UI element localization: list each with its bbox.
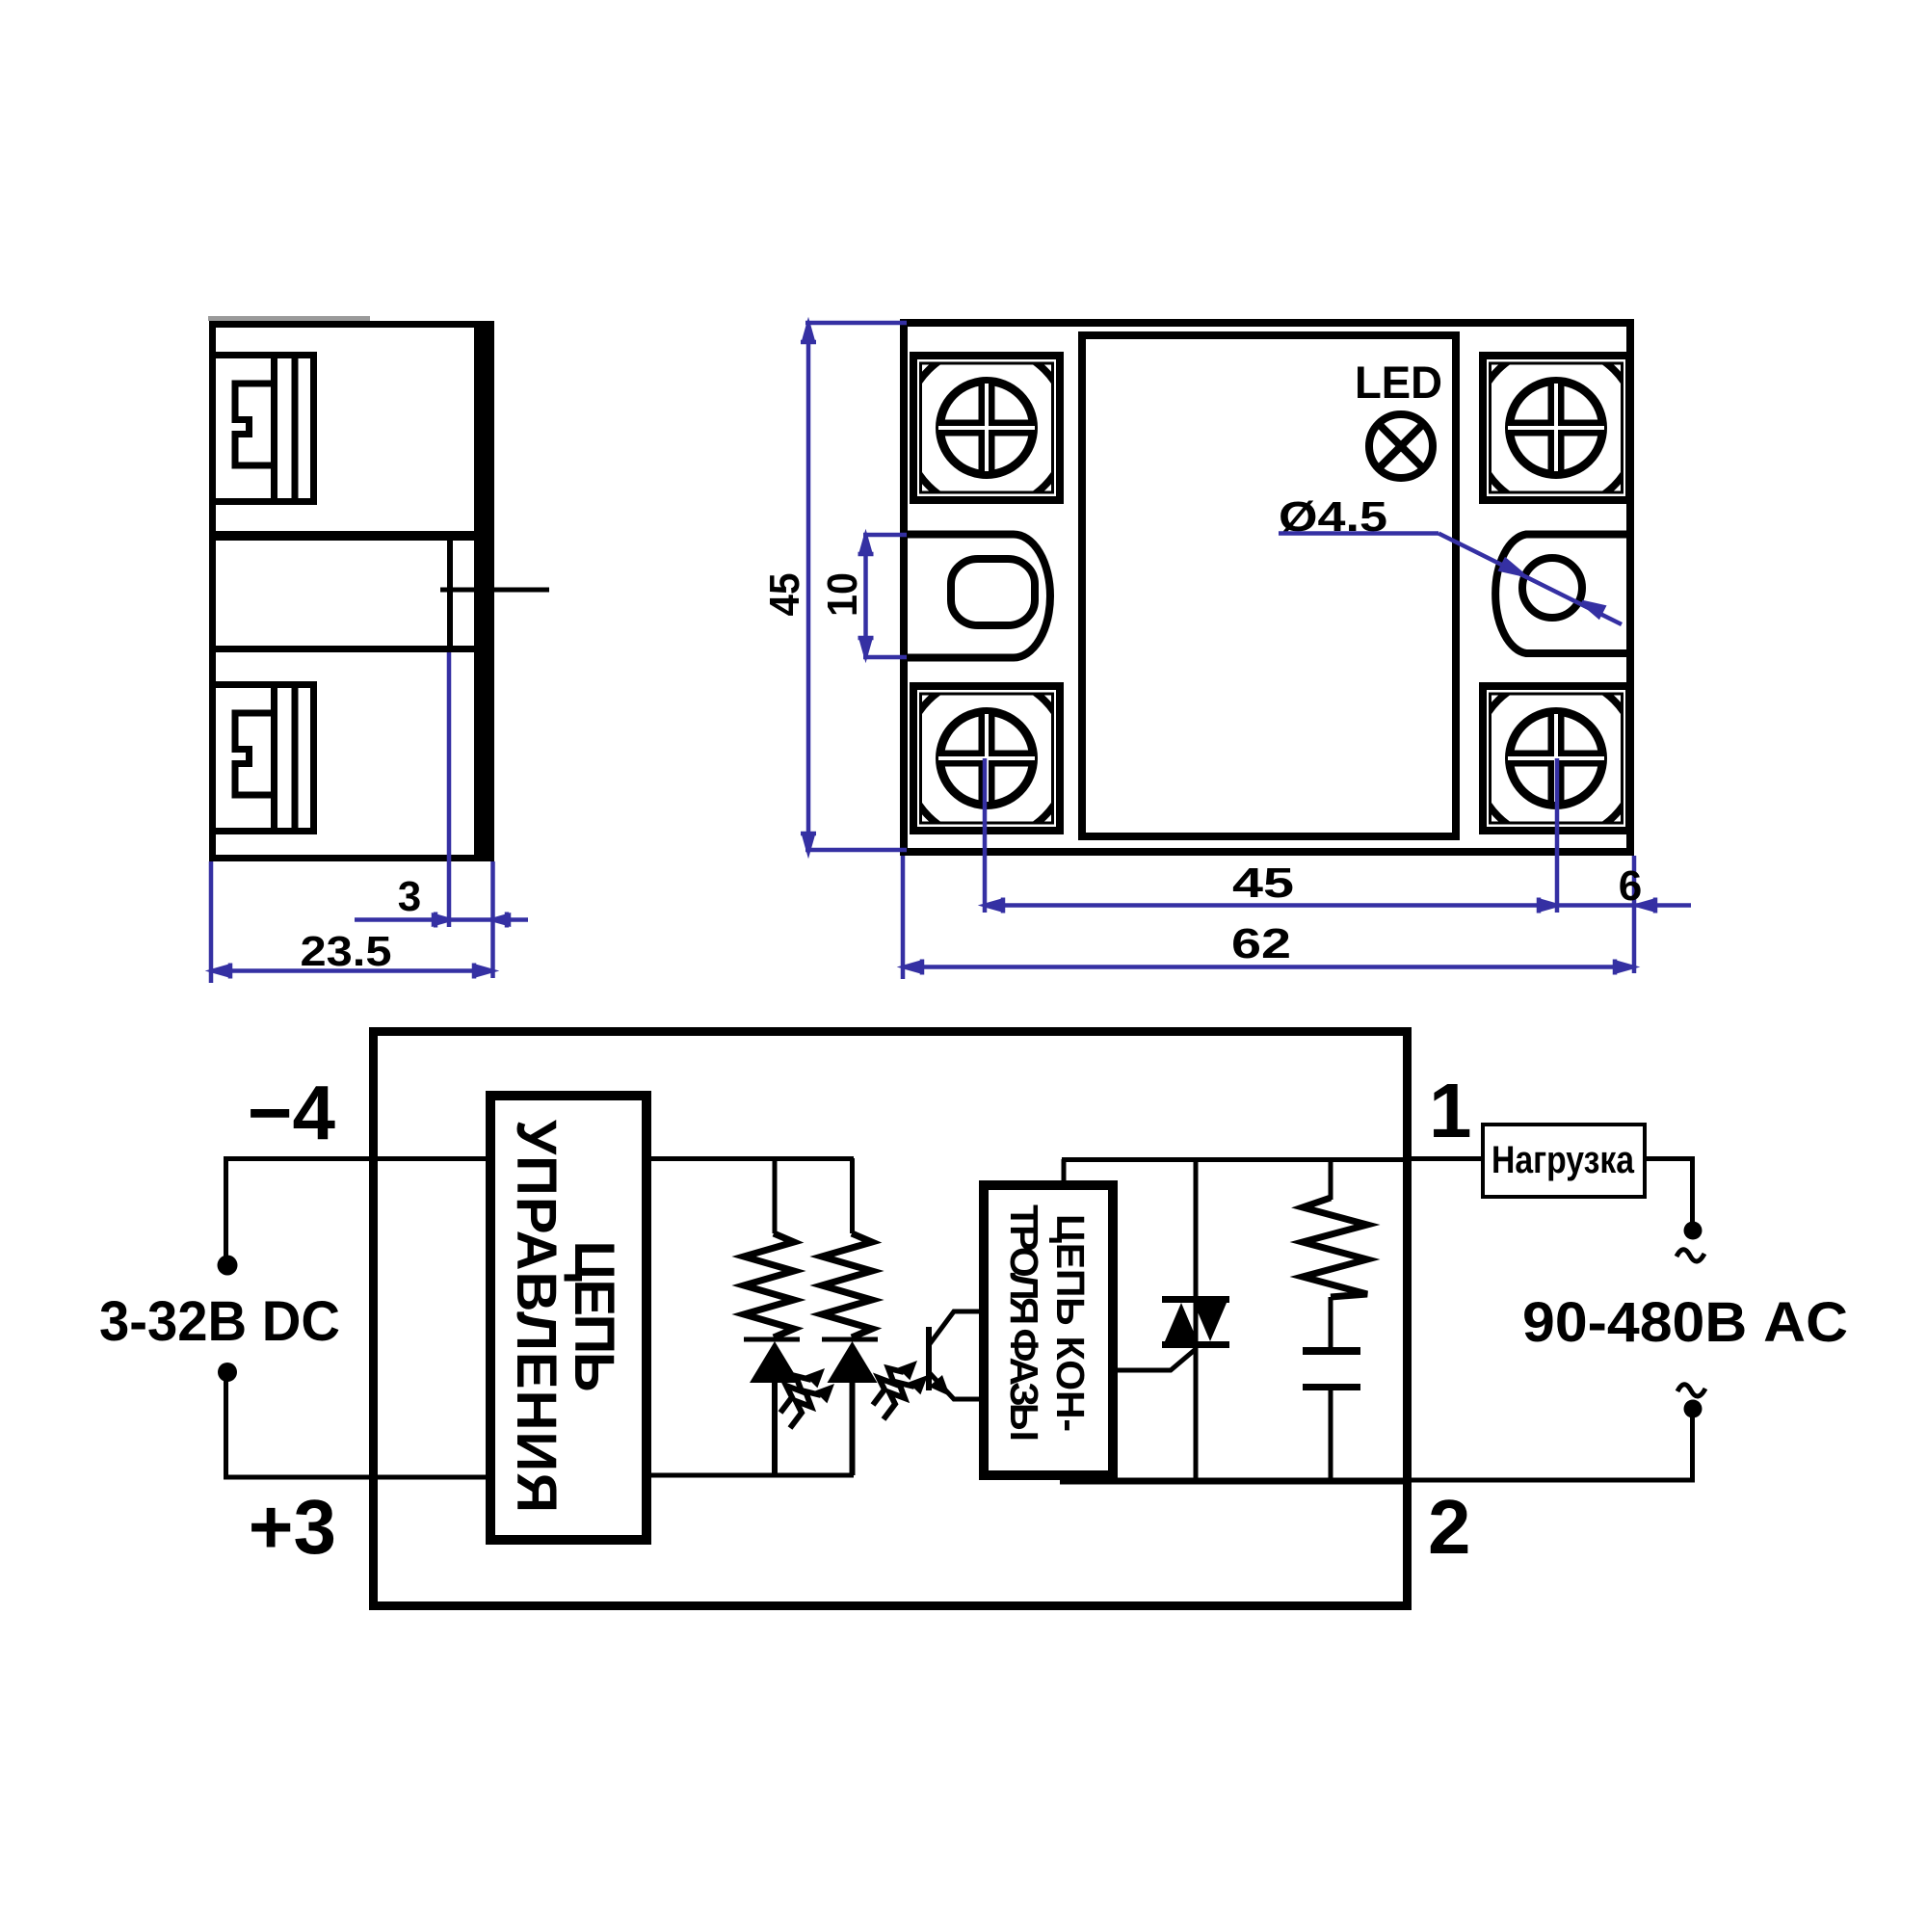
dim 6 line with outside arrow bbox=[1557, 898, 1691, 913]
wire: bottom rail middle bbox=[647, 1473, 854, 1478]
phototransistor Q1 base bar bbox=[926, 1327, 932, 1390]
outer rect bottom-left extension line bbox=[901, 856, 906, 979]
left oval mounting slot (top view) bbox=[903, 535, 1050, 658]
dimension 23.5 extension line (left) bbox=[209, 861, 214, 983]
LED D1 cathode bar bbox=[744, 1337, 800, 1342]
triac VS1 right triangle (down) bbox=[1191, 1296, 1229, 1341]
wire clamp E-shape 2 (side view) bbox=[235, 713, 274, 795]
light arrows from LED D1 bbox=[780, 1368, 825, 1413]
wire: top rail right bbox=[1062, 1157, 1407, 1162]
dim 45 (bottom horizontal) line with arrows bbox=[985, 898, 1557, 913]
middle recess divider line A (side view) bbox=[209, 531, 474, 541]
resistor R1 branch upper wire bbox=[773, 1158, 778, 1233]
dimension line 23.5 with arrows bbox=[211, 964, 492, 979]
wire: AC bottom terminal to terminal 2 bbox=[1407, 1416, 1693, 1480]
snubber middle wire bbox=[1329, 1297, 1333, 1348]
capacitor C1 top plate bbox=[1303, 1347, 1360, 1355]
wire: top rail left (terminal 4) bbox=[224, 1156, 490, 1161]
DC terminal dot lower bbox=[218, 1363, 237, 1382]
svg-text:62: 62 bbox=[1231, 920, 1291, 967]
outer rect bottom-right extension line bbox=[1632, 856, 1637, 973]
leader line for Ø4.5 bbox=[1279, 534, 1622, 625]
scan artifact gray streak above side view bbox=[208, 316, 370, 321]
triac gate wire bbox=[1113, 1349, 1196, 1370]
screw terminal bottom-right bbox=[1474, 676, 1638, 840]
resistor R2 branch upper wire bbox=[850, 1158, 855, 1233]
AC tilde lower bbox=[1677, 1385, 1705, 1396]
LED D1 triangle bbox=[750, 1341, 800, 1383]
snubber resistor R3 upper wire bbox=[1329, 1159, 1333, 1200]
svg-text:45: 45 bbox=[1232, 860, 1294, 907]
wire clamp E-shape 1 (side view) bbox=[235, 384, 274, 465]
svg-text:Нагрузка: Нагрузка bbox=[1491, 1139, 1635, 1181]
phase control circuit box label (rotated) bbox=[1002, 1204, 1093, 1442]
load box (Нагрузка) bbox=[1483, 1125, 1645, 1197]
svg-text:45: 45 bbox=[761, 573, 808, 617]
capacitor C1 lower wire bbox=[1329, 1390, 1333, 1481]
wire: DC lower vertical bbox=[224, 1378, 228, 1477]
dim 10 dimension line with arrows bbox=[858, 535, 874, 657]
screw center extension line (bottom-left) bbox=[983, 758, 988, 913]
capacitor C1 bottom plate bbox=[1303, 1384, 1360, 1390]
wire: DC upper vertical bbox=[224, 1159, 228, 1259]
AC terminal dot lower bbox=[1684, 1400, 1703, 1418]
svg-text:ЦЕПЬ КОН-: ЦЕПЬ КОН- bbox=[1048, 1214, 1093, 1432]
LED D2 triangle bbox=[828, 1341, 878, 1383]
screw terminal top-left bbox=[905, 346, 1069, 510]
phase control circuit box U2 bbox=[984, 1185, 1113, 1475]
phototransistor Q1 collector bbox=[929, 1311, 984, 1345]
svg-text:УПРАВЛЕНИЯ: УПРАВЛЕНИЯ bbox=[505, 1120, 568, 1513]
right oval mounting slot (top view) bbox=[1495, 535, 1631, 654]
phototransistor Q1 emitter with arrow bbox=[929, 1372, 984, 1399]
LED D1 lower wire bbox=[772, 1383, 778, 1475]
dim 45 (left vertical) dimension line with arrows bbox=[801, 323, 816, 852]
dim 10 extension lines bbox=[863, 535, 907, 657]
AC tilde upper bbox=[1676, 1250, 1704, 1261]
triac VS1 top bar bbox=[1162, 1296, 1229, 1303]
dimension 3 extension line (step) bbox=[447, 652, 452, 927]
svg-text:3: 3 bbox=[398, 873, 421, 920]
screw terminal bottom-left bbox=[905, 676, 1069, 840]
right oval inner hole circle Ø4.5 bbox=[1522, 558, 1582, 618]
wire: bottom rail right bbox=[1060, 1478, 1407, 1485]
AC terminal dot upper bbox=[1684, 1222, 1703, 1240]
dim 62 line with arrows bbox=[903, 960, 1634, 975]
svg-text:−4: −4 bbox=[248, 1070, 336, 1155]
dimension line 3 with arrows bbox=[355, 913, 528, 928]
triac VS1 left triangle (up) bbox=[1162, 1303, 1201, 1348]
svg-text:+3: +3 bbox=[249, 1484, 336, 1570]
relay body outline (side view) bbox=[213, 325, 491, 859]
svg-text:ЦЕПЬ: ЦЕПЬ bbox=[563, 1241, 625, 1392]
LED D2 lower wire bbox=[850, 1383, 856, 1475]
LED indicator symbol (circle with X) bbox=[1369, 414, 1433, 478]
wire: terminal 1 to load bbox=[1407, 1156, 1483, 1161]
light arrows from LED D2 bbox=[873, 1361, 917, 1405]
screw center extension line (bottom-right) bbox=[1555, 758, 1560, 913]
svg-text:6: 6 bbox=[1619, 862, 1642, 910]
control circuit box label (rotated) bbox=[505, 1120, 625, 1513]
screw terminal top-right bbox=[1474, 346, 1638, 510]
wire: stub from top rail to phase box bbox=[1062, 1159, 1067, 1185]
svg-text:10: 10 bbox=[819, 572, 866, 617]
base step vertical line (side view) bbox=[447, 536, 453, 648]
left oval inner hole bbox=[951, 559, 1035, 625]
DC terminal dot upper bbox=[218, 1256, 238, 1276]
svg-text:LED: LED bbox=[1355, 357, 1442, 408]
LED D2 cathode bar bbox=[822, 1337, 878, 1342]
svg-text:3-32В DC: 3-32В DC bbox=[99, 1290, 340, 1353]
relay outer rectangle (top view) bbox=[904, 323, 1630, 852]
dim 45 (left vertical) extension lines bbox=[805, 323, 907, 850]
resistor R2 (zigzag) bbox=[822, 1233, 872, 1337]
centerline (side view) bbox=[440, 588, 549, 593]
svg-text:1: 1 bbox=[1429, 1068, 1472, 1153]
middle recess divider line B (side view) bbox=[209, 646, 474, 652]
SSR enclosure big rectangle bbox=[374, 1032, 1408, 1606]
triac VS1 bottom bar bbox=[1162, 1341, 1229, 1348]
terminal block 2 (lower, side view) bbox=[213, 685, 314, 832]
svg-text:23.5: 23.5 bbox=[301, 928, 392, 975]
dimension 3 extension line (base right) bbox=[490, 861, 495, 978]
svg-text:2: 2 bbox=[1428, 1484, 1471, 1570]
terminal block 1 (upper, side view) bbox=[213, 356, 314, 502]
svg-text:ТРОЛЯ ФАЗЫ: ТРОЛЯ ФАЗЫ bbox=[1002, 1204, 1046, 1442]
snubber resistor R3 (zigzag) bbox=[1303, 1198, 1367, 1297]
wire: bottom rail left (terminal 3) bbox=[224, 1475, 490, 1480]
resistor R1 (zigzag) bbox=[744, 1233, 794, 1337]
mounting base plate (thick bar, side view) bbox=[474, 321, 494, 861]
wire: load to AC top terminal bbox=[1645, 1159, 1693, 1223]
triac main vertical wire bbox=[1194, 1159, 1199, 1481]
svg-text:90-480В AC: 90-480В AC bbox=[1522, 1291, 1848, 1354]
relay inner body rectangle (top view) bbox=[1082, 335, 1456, 836]
wire: top rail middle bbox=[647, 1156, 854, 1161]
control circuit box U1 bbox=[490, 1096, 647, 1540]
